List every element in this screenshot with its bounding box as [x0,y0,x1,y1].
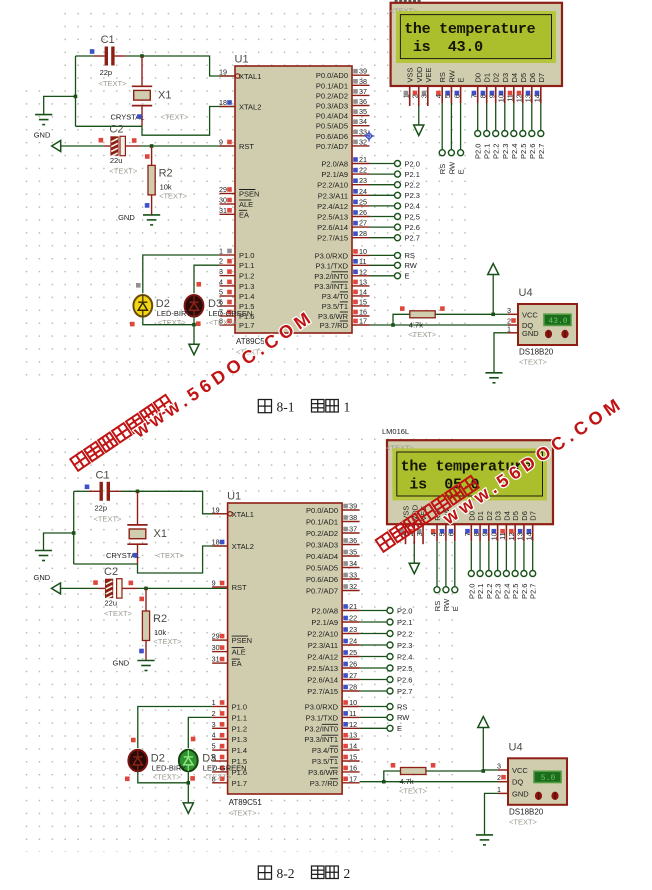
svg-text:P1.3: P1.3 [239,282,254,291]
svg-text:39: 39 [349,502,357,511]
LCD body (sim2) [387,440,553,524]
svg-text:9: 9 [219,138,223,147]
svg-text:23: 23 [359,176,367,185]
LCD pins 1-14 stubs numbers squares labels (sim1) [402,66,546,106]
ground symbol U4 (sim1) [485,373,502,383]
ground arrow led (sim2) [183,803,193,814]
C1 text placeholder (sim1) [99,79,128,88]
led state squares (sim2) [125,737,195,781]
svg-text:34: 34 [349,559,357,568]
svg-text:12: 12 [349,720,357,729]
svg-text:<TEXT>: <TEXT> [94,514,123,523]
svg-text:X1: X1 [158,89,171,101]
junction DQ pullup (sim1) [391,323,395,327]
svg-text:GND: GND [34,131,51,140]
svg-text:P2.7: P2.7 [397,687,412,696]
svg-text:P3.1/TXD: P3.1/TXD [306,713,339,722]
junction gnd tap (sim1) [74,95,78,99]
svg-text:P1.0: P1.0 [239,251,254,260]
X1 state square (sim1) [137,114,142,119]
LCD RS RW E wires terminals (sim2) [433,541,460,611]
ground symbol U4 (sim2) [476,835,493,845]
resistor R 4.7k pullup (sim2) [384,768,484,782]
svg-text:E: E [457,169,466,174]
svg-text:<TEXT>: <TEXT> [99,79,128,88]
svg-text:D4: D4 [510,73,519,83]
svg-text:21: 21 [349,602,357,611]
svg-text:22: 22 [349,614,357,623]
wire VCC rail to U4 (sim1) [493,313,508,315]
svg-text:P2.6: P2.6 [405,223,420,232]
svg-text:3: 3 [497,762,501,771]
wire power arrow riser (sim1) [492,275,494,315]
wire P1.1 to D3 (sim2) [188,717,212,748]
C2 text placeholder (sim2) [104,609,133,618]
svg-text:P2.5/A13: P2.5/A13 [317,213,348,222]
wire P1.0 to D2 (sim1) [143,255,220,293]
wire power arrow riser (sim2) [482,728,484,772]
svg-text:19: 19 [212,505,220,514]
mcu U1 value AT89C51 (sim1) [236,337,270,346]
svg-text:<TEXT>: <TEXT> [159,191,188,200]
svg-text:VSS: VSS [406,67,415,82]
svg-text:8: 8 [479,94,488,98]
svg-text:P2.6: P2.6 [397,675,412,684]
U4 value DS18B20 (sim1) [519,348,554,357]
svg-text:D0: D0 [474,73,483,83]
wire led rail to ground (sim2) [187,783,189,803]
svg-text:D2: D2 [492,73,501,83]
ground symbol R2 (sim1) [143,215,160,225]
svg-text:D5: D5 [511,511,520,521]
svg-text:RW: RW [447,69,456,82]
svg-text:X1: X1 [154,528,167,540]
mcu U1 text placeholder (sim2) [229,809,258,818]
C1 state square (sim1) [90,49,95,54]
svg-text:P2.0: P2.0 [467,584,476,599]
svg-text:P2.2: P2.2 [485,584,494,599]
svg-text:P2.1: P2.1 [476,584,485,599]
svg-text:<TEXT>: <TEXT> [158,318,187,327]
svg-text:4.7k: 4.7k [400,777,414,786]
svg-text:VDD: VDD [415,66,424,82]
svg-text:1: 1 [497,785,501,794]
svg-text:D7: D7 [529,511,538,521]
led D3 (sim1) [185,295,204,317]
svg-text:10: 10 [359,247,367,256]
svg-text:D3: D3 [494,511,503,521]
svg-text:1: 1 [402,94,411,98]
svg-text:8-2: 8-2 [277,866,295,881]
svg-text:39: 39 [359,67,367,76]
svg-text:38: 38 [359,77,367,86]
svg-text:P3.0/RXD: P3.0/RXD [305,703,339,712]
LCD D0-D7 wires terminals P2.x (sim2) [467,541,537,599]
svg-text:VCC: VCC [512,766,528,775]
svg-text:36: 36 [349,536,357,545]
wire led cathode rail (sim2) [138,771,189,783]
svg-text:C2: C2 [109,124,123,136]
svg-text:LM016L: LM016L [382,427,409,436]
wire xtal top rail (sim1) [76,55,94,57]
U4 pin names (sim1) [522,310,539,338]
svg-text:2: 2 [344,866,351,881]
svg-text:P0.6/AD6: P0.6/AD6 [306,575,338,584]
svg-text:1: 1 [507,324,511,333]
svg-text:P2.0: P2.0 [397,606,412,615]
svg-text:P3.7/RD: P3.7/RD [320,321,349,330]
svg-text:P2.5: P2.5 [511,584,520,599]
R 4.7k state squares (sim2) [391,763,436,768]
led D2 (sim1) [133,295,152,317]
wire LCD VDD pin2 down (sim1) [418,106,420,125]
svg-text:24: 24 [349,637,357,646]
wire LCD VDD pin2 down (sim2) [413,544,415,563]
LCD screen text line2 (sim1) [404,39,483,56]
R 4.7k state squares (sim1) [400,306,445,311]
svg-text:<TEXT>: <TEXT> [203,773,232,782]
svg-text:AT89C51: AT89C51 [229,798,263,807]
svg-text:17: 17 [349,774,357,783]
svg-text:P2.5: P2.5 [519,144,528,159]
svg-text:DQ: DQ [512,778,523,787]
LCD screen text line1 (sim2) [401,458,532,475]
capacitor C2 polarized (sim1) [103,136,140,156]
svg-text:P2.0/A8: P2.0/A8 [311,607,338,616]
svg-text:P2.5: P2.5 [405,212,420,221]
svg-text:LED-BIRY: LED-BIRY [157,309,191,318]
svg-text:XTAL1: XTAL1 [239,72,261,81]
ground symbol osc (sim2) [35,551,52,561]
led D3 (sim2) [179,750,198,772]
capacitor C2 polarized (sim2) [98,579,137,599]
svg-text:DS18B20: DS18B20 [519,348,554,357]
svg-text:P3.4/T0: P3.4/T0 [312,746,338,755]
D2 reference label (sim1) [156,298,170,310]
svg-text:XTAL2: XTAL2 [239,103,261,112]
wire bottom rail (sim2) [74,546,228,573]
grid dots circuit 2 [24,428,455,852]
mcu U1 right pin stubs and numbers (sim2) [304,502,359,788]
wire led cathode rail (sim1) [143,317,194,325]
U4 reference label (sim2) [509,741,523,753]
D2 text placeholder (sim2) [153,773,182,782]
X1 text placeholder (sim2) [156,551,185,560]
wire GND arrow to C2 (sim2) [61,587,99,589]
svg-text:14: 14 [533,94,542,102]
wire bottom rail (sim1) [76,107,236,136]
svg-text:P3.7/RD: P3.7/RD [310,779,339,788]
svg-text:RS: RS [397,702,407,711]
R2 reference label (sim2) [153,613,167,625]
svg-text:P1.7: P1.7 [232,779,247,788]
svg-text:6: 6 [447,532,456,536]
GND label R2 (sim2) [113,659,130,668]
U4 pin stubs 3 2 1 (sim2) [497,762,508,794]
svg-text:P2.4/A12: P2.4/A12 [307,653,338,662]
svg-text:4.7k: 4.7k [409,320,423,329]
svg-text:D1: D1 [483,73,492,83]
svg-text:27: 27 [349,671,357,680]
svg-text:15: 15 [359,297,367,306]
svg-text:13: 13 [349,731,357,740]
svg-text:34: 34 [359,117,367,126]
svg-text:P3.3/INT1: P3.3/INT1 [304,735,338,744]
LCD pins 1-14 stubs numbers squares labels (sim2) [397,504,537,544]
svg-text:<TEXT>: <TEXT> [153,773,182,782]
svg-text:1: 1 [212,698,216,707]
svg-text:P2.6: P2.6 [520,584,529,599]
U4 text placeholder (sim1) [519,358,548,367]
power arrow terminal (sim1) [488,264,499,275]
LCD screen text line1 (sim1) [404,21,535,38]
svg-text:P2.1: P2.1 [405,170,420,179]
svg-text:P2.6/A14: P2.6/A14 [317,223,348,232]
svg-text:11: 11 [506,94,515,101]
svg-text:22p: 22p [100,68,113,77]
C2 state squares (sim2) [93,580,133,585]
led state squares (sim1) [130,282,201,326]
R 4.7k value (sim2) [400,777,414,786]
U4 reference label (sim1) [519,287,533,299]
svg-text:9: 9 [481,532,490,536]
svg-text:P3.5/T1: P3.5/T1 [322,302,348,311]
svg-text:30: 30 [212,643,220,652]
mcu U1 reference label (sim1) [235,54,249,66]
wire led rail to ground (sim1) [193,325,195,345]
R 4.7k text placeholder (sim2) [399,787,428,796]
X1 state square (sim2) [133,553,138,558]
svg-text:3: 3 [507,306,511,315]
watermark 56doc lower [376,476,479,552]
wire U4 GND down (sim1) [494,333,508,373]
LCD screen (sim1) [396,11,556,63]
mcu U1 body (sim2) [228,503,343,794]
wire gnd tap (sim2) [44,533,74,551]
svg-text:P2.4/A12: P2.4/A12 [317,202,348,211]
wires and terminals RS RW E (sim2) [360,702,411,733]
svg-text:P2.3: P2.3 [405,191,420,200]
svg-text:GND: GND [522,329,539,338]
svg-text:D2: D2 [485,511,494,521]
svg-text:10: 10 [349,698,357,707]
wire gnd tap (sim1) [44,96,76,114]
R2 text placeholder (sim1) [159,191,188,200]
D2 text placeholder (sim1) [158,318,187,327]
resistor R2 (sim1) [148,146,155,215]
svg-text:<TEXT>: <TEXT> [209,318,238,327]
D3 value LED-GREEN (sim1) [209,309,253,318]
svg-text:P2.5: P2.5 [397,664,412,673]
ground arrow LCD VDD (sim2) [409,563,419,574]
svg-text:25: 25 [359,197,367,206]
wire GND arrow to C2 (sim1) [61,145,104,147]
crystal X1 (sim1) [132,56,152,126]
svg-text:C1: C1 [101,34,115,46]
svg-text:P0.4/AD4: P0.4/AD4 [306,552,338,561]
svg-text:4: 4 [434,94,443,98]
svg-text:P0.1/AD1: P0.1/AD1 [306,518,338,527]
mcu U1 left pin stubs and numbers (sim1) [219,68,261,331]
svg-text:P1.3: P1.3 [232,735,247,744]
LCD text placeholder (sim2) [386,444,415,453]
svg-text:GND: GND [512,789,529,798]
svg-text:43.0: 43.0 [548,317,567,326]
svg-text:P2.4: P2.4 [510,144,519,159]
svg-text:P2.1: P2.1 [397,618,412,627]
mcu U1 left pin stubs and numbers (sim2) [212,505,254,788]
wire VCC rail to U4 (sim2) [483,769,498,771]
svg-text:P1.1: P1.1 [232,713,247,722]
wire P3.7 to DQ (sim1) [370,324,509,326]
svg-text:30: 30 [219,196,227,205]
svg-text:RS: RS [438,164,447,174]
svg-text:27: 27 [359,219,367,228]
R2 value 10k (sim1) [160,182,172,191]
C1 state square (sim2) [85,485,90,490]
LCD D0-D7 wires terminals P2.x (sim1) [474,103,546,159]
U4 temperature display (sim2) [534,771,561,783]
svg-text:RW: RW [447,161,456,174]
svg-text:P2.3/A11: P2.3/A11 [308,641,338,650]
svg-text:9: 9 [488,94,497,98]
svg-text:LED-BIRY: LED-BIRY [152,764,186,773]
svg-text:XTAL2: XTAL2 [232,542,254,551]
svg-text:U1: U1 [227,491,241,503]
svg-text:D5: D5 [519,73,528,83]
U4 indicator leds (sim1) [545,330,569,338]
svg-text:D4: D4 [502,511,511,521]
svg-text:EA: EA [232,659,242,668]
svg-text:P3.1/TXD: P3.1/TXD [315,261,348,270]
svg-text:4: 4 [429,532,438,536]
svg-text:D7: D7 [537,73,546,83]
D3 value LED-GREEN (sim2) [203,764,247,773]
svg-text:P2.4: P2.4 [502,584,511,599]
svg-text:18: 18 [219,98,227,107]
svg-text:P3.6/WR: P3.6/WR [318,312,349,321]
wire P3.7 to DQ (sim2) [360,781,498,783]
svg-text:22: 22 [359,166,367,175]
svg-text:16: 16 [359,308,367,317]
svg-text:RW: RW [405,261,418,270]
svg-text:P0.0/AD0: P0.0/AD0 [306,506,338,515]
svg-text:E: E [451,606,460,611]
svg-text:P2.3: P2.3 [501,144,510,159]
svg-text:3: 3 [415,532,424,536]
D3 text placeholder (sim1) [209,318,238,327]
svg-text:P2.5/A13: P2.5/A13 [307,664,338,673]
svg-text:P2.2: P2.2 [492,144,501,159]
svg-text:P1.1: P1.1 [239,261,254,270]
svg-text:LED-GREEN: LED-GREEN [209,309,253,318]
wire P1.0 to D2 (sim2) [138,707,212,749]
junction C1-X1 top (sim1) [140,54,144,58]
svg-text:P3.2/INT0: P3.2/INT0 [304,724,338,733]
svg-text:P3.6/WR: P3.6/WR [308,768,339,777]
GND label R2 (sim1) [118,213,135,222]
svg-text:P0.3/AD3: P0.3/AD3 [306,541,338,550]
svg-text:35: 35 [359,107,367,116]
svg-text:R2: R2 [159,167,173,179]
svg-text:C2: C2 [104,566,118,578]
svg-text:10k: 10k [154,628,166,637]
svg-text:23: 23 [349,625,357,634]
svg-text:13: 13 [524,94,533,102]
svg-text:11: 11 [498,532,507,539]
svg-text:R2: R2 [153,613,167,625]
svg-text:LED-GREEN: LED-GREEN [203,764,247,773]
svg-text:P2.3: P2.3 [397,641,412,650]
svg-text:P2.0: P2.0 [405,159,420,168]
svg-text:P1.2: P1.2 [232,724,247,733]
svg-text:14: 14 [524,532,533,540]
svg-text:P2.2/A10: P2.2/A10 [317,181,348,190]
svg-text:P0.6/AD6: P0.6/AD6 [316,132,348,141]
svg-text:10k: 10k [160,182,172,191]
svg-text:P3.5/T1: P3.5/T1 [312,757,338,766]
capacitor C1 (sim1) [94,47,126,66]
U4 pin stubs 3 2 1 (sim1) [507,306,518,334]
svg-text:VCC: VCC [522,310,538,319]
junction VCC power (sim2) [482,769,486,773]
svg-text:P0.1/AD1: P0.1/AD1 [316,81,348,90]
svg-text:25: 25 [349,648,357,657]
wire U4 GND down (sim2) [485,793,499,835]
svg-text:DS18B20: DS18B20 [509,807,544,816]
svg-text:GND: GND [113,659,130,668]
svg-text:RS: RS [438,72,447,82]
resistor R2 (sim2) [142,588,149,660]
mcu U1 value AT89C51 (sim2) [229,798,263,807]
svg-text:4: 4 [219,277,223,286]
svg-text:P2.1/A9: P2.1/A9 [311,618,338,627]
junction C1-X1 top (sim2) [136,490,140,494]
terminal arrow GND left (sim2) [52,583,61,594]
wire xtal top rail (sim2) [74,490,89,492]
svg-text:P0.7/AD7: P0.7/AD7 [316,142,348,151]
svg-text:<TEXT>: <TEXT> [399,787,428,796]
svg-text:22u: 22u [110,156,123,165]
svg-text:32: 32 [359,137,367,146]
svg-text:<TEXT>: <TEXT> [156,551,185,560]
svg-text:18: 18 [212,538,220,547]
junction RST-R2 (sim2) [144,587,148,591]
svg-text:14: 14 [359,287,367,296]
svg-text:22p: 22p [95,503,108,512]
wire xtal1 to U1 (sim1) [126,56,235,76]
svg-text:28: 28 [349,683,357,692]
junction gnd tap (sim2) [72,531,76,535]
LCD screen (sim2) [392,448,547,500]
svg-text:P2.2/A10: P2.2/A10 [307,630,338,639]
svg-text:P0.3/AD3: P0.3/AD3 [316,102,348,111]
svg-text:9: 9 [212,579,216,588]
svg-text:33: 33 [349,571,357,580]
svg-text:29: 29 [219,185,227,194]
D3 reference label (sim2) [202,753,216,765]
svg-text:P2.1: P2.1 [483,144,492,159]
svg-text:12: 12 [359,267,367,276]
D2 value LED-BIRY (sim2) [152,764,186,773]
svg-text:12: 12 [515,94,524,102]
svg-text:P1.4: P1.4 [239,292,254,301]
svg-text:RW: RW [397,713,410,722]
R2 text placeholder (sim2) [154,637,183,646]
svg-text:RST: RST [239,142,254,151]
wire P1.1 to D3 (sim1) [194,265,220,293]
C2 reference label (sim1) [109,124,123,136]
